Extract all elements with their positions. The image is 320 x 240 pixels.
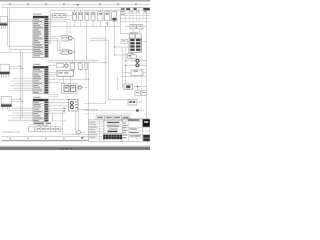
terminal X1:3 row bbox=[33, 23, 50, 25]
wire drop flag bbox=[78, 111, 80, 135]
top ruler line bbox=[2, 4, 151, 6]
wire A1 right bbox=[140, 40, 147, 42]
terminal X2:9 row bbox=[33, 87, 50, 89]
frame bottom inner line bbox=[2, 136, 151, 138]
company box bbox=[104, 120, 122, 133]
module G1 cell b bbox=[71, 86, 76, 92]
dashed vertical separator bbox=[140, 56, 142, 110]
terminal X1L:6 row bbox=[33, 55, 48, 57]
control bus mid bbox=[48, 60, 98, 62]
wire riser N1 bbox=[20, 49, 22, 120]
wire into X3 row 2 bbox=[8, 110, 33, 112]
wire riser N2 bbox=[22, 52, 24, 118]
wire B1 to X1 a bbox=[7, 18, 33, 20]
wire X2 row 2 out bbox=[48, 71, 57, 73]
relay D body bbox=[53, 14, 67, 18]
ground mark under Q3 bbox=[106, 23, 108, 25]
wire feeder L1 vertical bbox=[8, 8, 33, 47]
wire X2 lower out a bbox=[48, 82, 62, 84]
terminal strip X1 divider bbox=[43, 16, 45, 44]
wire into X2 row 6 bbox=[10, 90, 33, 92]
terminal X2:3 row bbox=[33, 73, 50, 75]
terminal X1:11 row bbox=[33, 39, 50, 41]
wire branch y62.6 bbox=[89, 62, 106, 64]
drawing number bold bbox=[103, 135, 122, 140]
terminal X1:7 row bbox=[33, 31, 50, 33]
wire drop to M1 bbox=[123, 76, 124, 86]
wire U5 right bbox=[143, 72, 147, 74]
cable table header cells bbox=[126, 8, 150, 10]
terminal X1:6 row bbox=[33, 29, 50, 31]
module G1 cell a bbox=[64, 86, 69, 92]
terminal row W1 cells bbox=[29, 124, 61, 132]
terminal strip X3 header bbox=[33, 99, 48, 101]
wire riser into M1 bbox=[125, 65, 127, 84]
connector B3 body bbox=[1, 96, 11, 104]
junction dot M1 bbox=[137, 86, 139, 88]
wire B2 out b bbox=[9, 67, 22, 69]
label above W1 bbox=[37, 125, 49, 126]
terminal X2:1 row bbox=[33, 69, 50, 71]
starter Q1 aux marks bbox=[75, 101, 77, 108]
terminal X1:5 row bbox=[33, 27, 50, 29]
cable table row text bbox=[121, 8, 147, 15]
long wire y110 bbox=[84, 110, 144, 112]
module G1 stems bbox=[64, 76, 71, 83]
terminal strip X3 divider bbox=[43, 99, 45, 122]
wire riser R4 bbox=[84, 38, 106, 103]
terminal strip X2 divider bbox=[43, 66, 45, 93]
label above A1 bbox=[129, 32, 138, 33]
frame right border bbox=[146, 8, 148, 142]
junction diamond y110 bbox=[136, 109, 139, 111]
terminal X2:8 row bbox=[33, 85, 50, 87]
junction dots feeders bbox=[20, 66, 23, 102]
terminal X1L:1 row bbox=[33, 44, 48, 46]
wire riser R1 bbox=[90, 27, 106, 39]
page background bbox=[0, 0, 150, 150]
wire vertical right area bbox=[117, 76, 119, 90]
logo mark bbox=[144, 121, 148, 123]
wire X2 lower out c bbox=[48, 96, 58, 98]
interface marks bbox=[131, 26, 141, 27]
breaker Q3 bbox=[105, 10, 110, 26]
relay D dividers bbox=[57, 14, 62, 18]
coil K2 circle bbox=[69, 50, 73, 54]
supply bus bottom bbox=[51, 26, 121, 28]
wire X3 bottom jog bbox=[53, 113, 67, 121]
lamp H1 bbox=[136, 59, 139, 62]
drawing number speckles bbox=[103, 135, 122, 140]
small box mid bbox=[57, 64, 64, 68]
wire X1 top to relay D bbox=[48, 15, 52, 17]
PLC A1 body bbox=[129, 38, 142, 52]
label above X2 bbox=[33, 64, 41, 65]
input box PB1 bbox=[121, 39, 127, 43]
bottom ruler column numbers bbox=[9, 137, 119, 141]
X1 side loop wire bbox=[50, 17, 52, 44]
wire riser R2 bbox=[113, 27, 115, 56]
PLC A1 channel 4 bbox=[130, 49, 140, 51]
revision table lines bbox=[89, 120, 105, 141]
enclosure right edge bbox=[120, 10, 122, 34]
interface box U3b bbox=[137, 25, 143, 29]
coil K1 circle bbox=[69, 37, 73, 41]
wire X2 row 1 out bbox=[48, 65, 56, 67]
terminal X1L:4 row bbox=[33, 51, 48, 53]
connector B1 label bbox=[0, 23, 8, 25]
wide device box T1 bbox=[57, 71, 74, 76]
terminal X3:4 row bbox=[33, 108, 50, 110]
bottom ruler marker arrow bbox=[81, 137, 83, 139]
wire into X3 row 6 bbox=[8, 119, 33, 121]
wire B2 out a bbox=[9, 65, 20, 67]
junction dots lamps bbox=[125, 60, 126, 66]
wire B3 out b bbox=[11, 100, 22, 102]
note text bottom left bbox=[3, 132, 20, 133]
fuse F4 bbox=[91, 10, 95, 26]
wire K1 out bbox=[72, 38, 74, 60]
wire lamp H2 bbox=[125, 64, 147, 66]
terminal X2:6 row bbox=[33, 80, 50, 82]
terminal strip X1 lower section bbox=[33, 44, 48, 57]
wire A1 aux row a bbox=[114, 46, 130, 48]
wire into X2 row 1 bbox=[13, 78, 33, 80]
connector B2 label bbox=[0, 72, 10, 74]
connector B1 pins bbox=[1, 26, 5, 29]
wire X1 top out a bbox=[48, 20, 70, 34]
wire lamp H1 bbox=[125, 60, 147, 62]
wire G1 circle out bbox=[82, 87, 89, 89]
wire feeder L3 from edge bbox=[0, 51, 33, 53]
coil K2 box bbox=[62, 49, 69, 54]
wire A1 left bbox=[127, 40, 130, 42]
device U6 body bbox=[128, 99, 137, 105]
terminal X3:9 row bbox=[33, 119, 50, 121]
label above X1 bbox=[33, 14, 42, 15]
starter Q1 body bbox=[68, 99, 78, 111]
starter Q1 pole b bbox=[70, 106, 73, 109]
fuse F3 bbox=[85, 10, 89, 26]
terminal X2:4 row bbox=[33, 75, 50, 77]
wire into X3 row 4 bbox=[8, 114, 33, 116]
terminal X1:9 row bbox=[33, 35, 50, 37]
wire Q1 out bbox=[78, 109, 97, 110]
contactor S3 bbox=[85, 62, 87, 79]
terminal X1:1 row bbox=[33, 18, 50, 20]
connector B2 pins bbox=[2, 75, 9, 78]
terminal X3:1 row bbox=[33, 101, 50, 103]
terminal X3:3 row bbox=[33, 106, 50, 108]
PLC A1 channel 2 bbox=[130, 42, 140, 44]
wire U5 left bbox=[122, 72, 132, 74]
coil K3 circle bbox=[65, 64, 68, 67]
wire riser at 50.5 bbox=[48, 12, 50, 27]
wires X3 lower out bbox=[48, 108, 66, 113]
wire U6 left bbox=[109, 99, 129, 101]
wire G1 to circle bbox=[77, 87, 78, 89]
title right label column bbox=[123, 123, 128, 138]
terminal strip X1 outline bbox=[33, 16, 48, 44]
wire into X3 row 1 bbox=[12, 107, 33, 109]
cable label under X3 bbox=[34, 123, 45, 125]
terminal X2:5 row bbox=[33, 78, 50, 80]
wire to stack bbox=[121, 33, 133, 35]
terminal X3:5 row bbox=[33, 110, 50, 112]
terminal X1L:2 row bbox=[33, 46, 48, 48]
wire into X2 row 4 bbox=[10, 85, 33, 87]
frame top border bbox=[2, 7, 151, 9]
X1 comb extension bbox=[48, 19, 51, 43]
junction y62.6 bbox=[105, 62, 106, 63]
wire label strip bbox=[84, 114, 133, 120]
wire U3 drops bbox=[133, 29, 140, 34]
PLC A1 channel 1 bbox=[130, 39, 140, 41]
wire A1 left riser bbox=[125, 47, 127, 62]
wire X1 to K2 coil jog b bbox=[48, 41, 62, 53]
terminal X1L:3 row bbox=[33, 49, 48, 51]
wire into X2 row 5 bbox=[13, 87, 33, 89]
wire drop bottom c bbox=[88, 63, 90, 135]
wire into X2 row 3 bbox=[13, 82, 33, 84]
cable label under X3 b bbox=[46, 123, 52, 125]
wire A1 aux row b bbox=[114, 54, 127, 56]
T1 marks bbox=[58, 72, 68, 73]
cable flag symbol bbox=[76, 130, 84, 134]
terminal strip X2 header bbox=[33, 66, 48, 68]
frame bottom outer line bbox=[2, 140, 151, 142]
wires X3 to Q1 bbox=[48, 100, 68, 106]
wire B3 out a bbox=[11, 98, 20, 100]
terminal X1:8 row bbox=[33, 33, 50, 35]
junction dots bus bbox=[72, 46, 115, 63]
PLC A1 top boxes bbox=[130, 34, 142, 38]
terminal X3:8 row bbox=[33, 117, 50, 119]
label above X3 bbox=[33, 97, 41, 98]
terminal X2:11 row bbox=[33, 91, 50, 93]
wire stair R3 bbox=[90, 40, 109, 100]
wire U6 right bbox=[137, 101, 141, 103]
terminal X2:2 row bbox=[33, 71, 50, 73]
top ruler column numbers bbox=[9, 3, 137, 4]
logo box bbox=[143, 119, 150, 127]
title block outline bbox=[89, 120, 151, 141]
section divider line bbox=[121, 75, 147, 77]
wire drops X2 bbox=[54, 71, 57, 80]
title right header bbox=[122, 119, 150, 142]
wire feeder L2 vertical bbox=[10, 8, 33, 50]
device M1 body bbox=[124, 84, 133, 90]
lamp H2 bbox=[136, 64, 139, 67]
control bus mid2 bbox=[48, 61, 90, 63]
breaker Q2 bbox=[98, 10, 103, 26]
wire left col riser bbox=[122, 47, 124, 76]
module box G1 outer bbox=[62, 84, 78, 94]
terminal strip X1 header bbox=[33, 16, 48, 18]
wire into X3 row 3 bbox=[12, 112, 33, 114]
junction K2 out bbox=[74, 51, 75, 52]
wire W1 right bbox=[61, 128, 63, 130]
terminal X3:2 row bbox=[33, 104, 50, 106]
device U6 marks bbox=[129, 101, 135, 103]
wire relay D to F1 bbox=[66, 15, 73, 17]
connector B3 label bbox=[1, 104, 12, 106]
title right grid bbox=[122, 119, 150, 141]
terminal X1:12 row bbox=[33, 41, 50, 43]
device U4 below A1 bbox=[127, 51, 133, 59]
terminal X1:4 row bbox=[33, 25, 50, 27]
wire into X2 row 2 bbox=[10, 80, 33, 82]
G1 coil circle bbox=[78, 86, 81, 89]
terminal X3:6 row bbox=[33, 113, 50, 115]
terminal X2:7 row bbox=[33, 82, 50, 84]
wire out of U3 bbox=[143, 26, 147, 28]
wire X2 lower out b bbox=[48, 94, 58, 96]
G1 inner marks bbox=[65, 87, 75, 88]
wire M1 right bbox=[133, 86, 147, 88]
top window band bbox=[0, 0, 150, 1]
terminal strip X3 outline bbox=[33, 99, 48, 122]
wire X1 to K2 coil jog a bbox=[48, 39, 62, 51]
terminal X2:10 row bbox=[33, 89, 50, 91]
breaker Q4 bbox=[112, 10, 117, 26]
contactor S2 bbox=[78, 62, 82, 71]
bottom window band bbox=[0, 146, 150, 147]
wire into X3 row 5 bbox=[12, 117, 33, 119]
PLC A1 channel 3 bbox=[130, 45, 140, 47]
device M1 core bbox=[126, 85, 130, 88]
aux boxes right bbox=[135, 91, 147, 96]
company text lines bbox=[106, 122, 119, 132]
lamp bracket box bbox=[131, 55, 136, 59]
wire K2 out bbox=[72, 51, 74, 53]
contactor S1 bbox=[71, 62, 75, 71]
terminal X1:10 row bbox=[33, 37, 50, 39]
title right cell texts bbox=[129, 128, 140, 136]
wire X1 top out b bbox=[48, 22, 67, 36]
wire X1 to K1 coil bbox=[48, 35, 62, 37]
wire drop bottom a bbox=[63, 111, 97, 135]
fuse F2 bbox=[79, 10, 83, 26]
wire F3 down feed bbox=[86, 27, 88, 61]
control bus lower bbox=[48, 79, 90, 81]
wire X2 row 3 out bbox=[48, 74, 57, 76]
terminal X1:2 row bbox=[33, 20, 50, 22]
terminal strip X2 outline bbox=[33, 66, 48, 93]
fuse F1 bbox=[73, 10, 77, 26]
connector B2 body bbox=[0, 64, 9, 71]
wire into U3 bbox=[125, 26, 131, 28]
supply bus top bbox=[51, 9, 121, 11]
starter Q1 pole a bbox=[70, 101, 73, 104]
top ruler marker arrow bbox=[76, 4, 78, 6]
wire X2 row 4 out bbox=[48, 76, 54, 78]
device U5 box bbox=[131, 70, 143, 76]
connector B1 body bbox=[0, 16, 7, 23]
interface box U3a bbox=[130, 25, 136, 29]
terminal X1L:5 row bbox=[33, 53, 48, 55]
wire B1 to X1 b bbox=[7, 20, 33, 22]
wire number labels X3 out bbox=[63, 108, 65, 112]
cable table grid bbox=[121, 8, 151, 22]
sheet cells dark bbox=[143, 135, 150, 141]
bottom band status text bbox=[61, 148, 73, 149]
relay D marks bbox=[54, 15, 66, 16]
device U5 text bbox=[134, 71, 139, 72]
wire drop bottom b bbox=[75, 111, 77, 135]
wire dot to aux boxes bbox=[137, 87, 139, 91]
connector B3 pins bbox=[3, 107, 10, 110]
terminal X3:7 row bbox=[33, 115, 50, 117]
coil K1 box bbox=[62, 36, 69, 41]
